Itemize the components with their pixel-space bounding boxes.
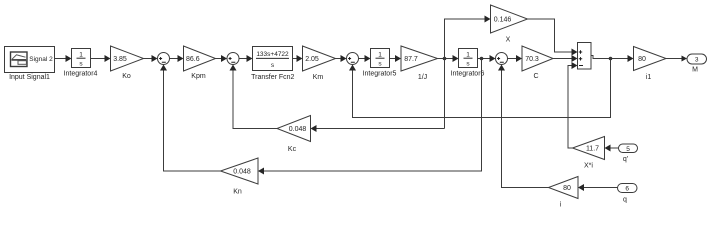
sum S4 — [496, 53, 508, 65]
svg-text:80: 80 — [638, 56, 646, 63]
wire — [239, 55, 253, 62]
wire — [293, 55, 303, 62]
svg-text:86.6: 86.6 — [186, 56, 200, 63]
block Sum — [578, 43, 592, 70]
svg-text:11.7: 11.7 — [586, 145, 599, 152]
wire inport 5 to gain X*i — [605, 145, 619, 152]
wire — [336, 55, 347, 62]
wire — [55, 55, 72, 62]
wire inport 6 to gain i — [578, 184, 618, 191]
svg-text:X*i: X*i — [584, 163, 593, 170]
wire — [216, 55, 228, 62]
wire — [478, 55, 496, 62]
svg-text:Integrator5: Integrator5 — [363, 71, 397, 78]
svg-text:2.05: 2.05 — [305, 56, 319, 63]
svg-text:Km: Km — [313, 74, 324, 81]
svg-text:M: M — [692, 67, 698, 74]
svg-text:1: 1 — [466, 52, 470, 59]
svg-text:1/J: 1/J — [418, 74, 427, 81]
svg-text:Signal 2: Signal 2 — [29, 56, 53, 63]
junction — [609, 57, 613, 61]
gain Kpm 86.6 — [184, 46, 216, 71]
wire — [438, 55, 459, 62]
wire Kc output to sum S2 — [230, 65, 278, 129]
svg-text:133s+4722: 133s+4722 — [256, 51, 289, 58]
wire gain X output to Sum input1 — [528, 19, 578, 56]
wire — [390, 55, 402, 62]
inport 5 — [619, 144, 638, 153]
wire junction to gain Kn — [258, 59, 482, 175]
inport 6 — [618, 184, 638, 193]
gain 1/J 87.7 — [401, 46, 438, 71]
gain Ko 3.85 — [111, 46, 144, 71]
wire Kn output to sum S1 — [160, 65, 221, 172]
junction — [480, 57, 484, 61]
svg-text:70.3: 70.3 — [525, 56, 539, 63]
gain Kc 0.048 — [277, 116, 311, 142]
svg-text:Kpm: Kpm — [191, 73, 206, 80]
wire feedback Sum output to sum S3 — [349, 59, 611, 118]
sum S3 — [347, 53, 359, 65]
svg-text:X: X — [506, 37, 511, 44]
gain Km 2.05 — [303, 46, 336, 71]
outport 3 — [687, 54, 707, 64]
svg-text:0.146: 0.146 — [494, 16, 512, 23]
svg-text:Integrator6: Integrator6 — [451, 71, 485, 78]
svg-text:Ko: Ko — [122, 73, 131, 80]
wire Sum output — [591, 55, 634, 62]
wire — [508, 55, 523, 62]
svg-text:Integrator4: Integrator4 — [64, 71, 98, 78]
gain i 80 — [549, 177, 579, 199]
svg-text:87.7: 87.7 — [404, 56, 418, 63]
block Input Signal1 — [5, 47, 55, 73]
svg-text:Kc: Kc — [288, 146, 297, 153]
svg-text:3: 3 — [695, 57, 699, 64]
svg-text:3.85: 3.85 — [113, 56, 127, 63]
wire gain i output to sum S4 — [498, 65, 549, 188]
svg-text:0.048: 0.048 — [289, 126, 307, 133]
svg-text:q: q — [623, 197, 627, 204]
wire C output to Sum input2 — [553, 55, 578, 62]
wire to gain X and to gain Kc — [311, 16, 491, 133]
gain Kn 0.048 — [221, 158, 259, 184]
svg-text:80: 80 — [563, 185, 571, 192]
svg-text:C: C — [533, 73, 538, 80]
svg-text:Transfer Fcn2: Transfer Fcn2 — [251, 74, 294, 81]
block Integrator4 — [72, 49, 91, 68]
wire — [359, 55, 371, 62]
gain i1 80 — [634, 47, 667, 71]
svg-text:0.048: 0.048 — [233, 168, 251, 175]
sum S2 — [227, 53, 239, 65]
block Transfer Fcn2 — [253, 47, 293, 71]
wire X*i output to Sum input3 — [568, 62, 578, 148]
block Integrator5 — [371, 49, 390, 68]
svg-text:5: 5 — [626, 146, 630, 153]
gain X*i 11.7 — [573, 137, 605, 160]
sum S1 — [158, 53, 170, 65]
svg-text:1: 1 — [378, 52, 382, 59]
svg-text:i1: i1 — [646, 74, 652, 81]
junction — [443, 57, 447, 61]
wire — [666, 56, 687, 62]
wire — [144, 55, 158, 62]
wire — [91, 55, 111, 62]
svg-text:q': q' — [623, 156, 628, 163]
gain X 0.146 — [491, 5, 528, 33]
wire — [170, 55, 184, 62]
gain C 70.3 — [522, 46, 553, 71]
svg-text:Kn: Kn — [233, 189, 242, 196]
svg-text:Input Signal1: Input Signal1 — [9, 74, 50, 81]
block Integrator6 — [459, 49, 478, 68]
svg-text:1: 1 — [79, 52, 83, 59]
svg-text:6: 6 — [625, 186, 629, 193]
